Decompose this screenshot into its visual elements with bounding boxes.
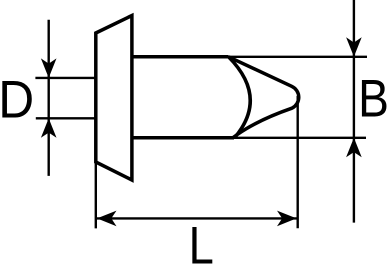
wire extension line B bottom	[234, 137, 366, 139]
wire extension line D top	[35, 77, 95, 79]
dimension line L horizontal	[97, 217, 297, 219]
wire extension line B top	[229, 56, 368, 58]
extension line L right (through tip)	[297, 96, 299, 228]
shank end arc	[229, 57, 251, 138]
wire shank bottom contour	[132, 136, 234, 140]
dimension line D vertical	[48, 20, 50, 176]
svg-text:L: L	[189, 217, 214, 276]
arrowhead B bottom (points up)	[346, 138, 362, 158]
svg-text:D: D	[0, 71, 34, 130]
dimension line B vertical	[353, 0, 355, 223]
arrowhead D top (points down)	[41, 58, 57, 78]
arrowhead L left (points left)	[97, 211, 117, 227]
rivet head (flat countersunk head outline)	[96, 16, 132, 181]
arrowhead L right (points right)	[277, 211, 297, 227]
wire shank top contour	[132, 55, 229, 59]
wire extension line D bottom	[36, 117, 96, 119]
extension line L left	[95, 162, 97, 228]
rivet point (rounded cone tip)	[229, 57, 299, 138]
arrowhead B top (points down)	[346, 37, 362, 57]
arrowhead D bottom (points up)	[41, 118, 57, 138]
svg-text:B: B	[358, 70, 388, 129]
